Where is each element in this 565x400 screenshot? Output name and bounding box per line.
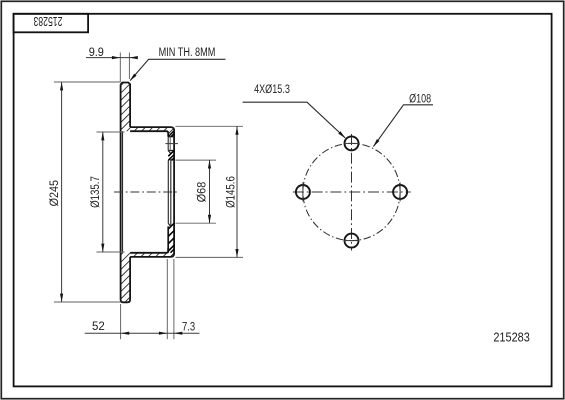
top flange outline xyxy=(130,127,174,257)
svg-text:9.9: 9.9 xyxy=(89,47,104,59)
lower wall inner edge xyxy=(167,226,169,252)
svg-text:Ø108: Ø108 xyxy=(409,93,431,105)
label o135.7 xyxy=(90,176,102,208)
bolt hole bottom xyxy=(345,234,359,248)
label o245 xyxy=(49,180,61,206)
svg-text:4XØ15.3: 4XØ15.3 xyxy=(254,84,290,96)
bolt hole top xyxy=(345,136,359,150)
dimension line 52 / 7.3 xyxy=(85,332,200,334)
extension lines dim o145.6 xyxy=(176,126,244,257)
extension lines dim o245 xyxy=(54,82,121,302)
label MIN TH. 8MM xyxy=(159,47,216,59)
leader o108 xyxy=(373,105,433,147)
dimension line o145.6 xyxy=(236,126,238,257)
leader 4Xo15.3 xyxy=(243,102,346,138)
dimension line o245 xyxy=(61,82,63,302)
bore chamfer diagonal (lower) xyxy=(168,223,171,226)
extension lines dim o135.7 xyxy=(97,132,125,252)
label o145.6 xyxy=(225,176,237,208)
bolt hole centermarks in section xyxy=(165,143,178,145)
label o68 xyxy=(197,182,209,203)
svg-text:215283: 215283 xyxy=(33,14,62,28)
bore silhouette verticals xyxy=(168,157,171,226)
label 52 xyxy=(92,321,105,333)
extension lines dims 52 / 7.3 xyxy=(121,259,174,339)
svg-text:215283: 215283 xyxy=(493,329,530,344)
bolt hole left xyxy=(296,185,310,199)
leader MIN TH. 8MM xyxy=(130,59,225,80)
dimension line 9.9 xyxy=(86,57,138,59)
wall thin verticals through bolt hole bands xyxy=(168,137,170,151)
label 9.9 xyxy=(89,47,104,59)
label 7.3 xyxy=(182,322,195,334)
extra hatch strokes upper wall blocks xyxy=(168,131,174,160)
label o108 xyxy=(409,93,431,105)
vertical centerline xyxy=(351,134,353,251)
hatch upper bore chamfer block xyxy=(168,151,174,161)
centerline of disc axis xyxy=(114,191,178,193)
hatch top flange and wall block xyxy=(130,127,174,137)
svg-text:52: 52 xyxy=(92,321,105,333)
extension lines dim 9.9 xyxy=(120,53,129,83)
svg-text:MIN TH. 8MM: MIN TH. 8MM xyxy=(159,47,216,59)
hatch disc lower block xyxy=(121,253,131,302)
title box top-left xyxy=(14,14,89,33)
svg-text:7.3: 7.3 xyxy=(182,322,195,334)
label 4Xo15.3 xyxy=(254,84,290,96)
svg-text:Ø145.6: Ø145.6 xyxy=(225,176,237,208)
bolt hole right xyxy=(393,185,407,199)
svg-text:Ø68: Ø68 xyxy=(197,182,209,203)
extra hatch strokes lower wall band xyxy=(168,223,174,252)
disc outline xyxy=(121,83,131,303)
extension lines dim o68 xyxy=(176,160,217,223)
bolt hole edges in section (upper) xyxy=(168,137,174,151)
horizontal centerline xyxy=(293,191,411,193)
hatch disc upper block xyxy=(121,83,131,131)
hatch lower wall and bottom flange block xyxy=(130,223,174,257)
dimension line o135.7 xyxy=(102,132,104,252)
svg-text:Ø245: Ø245 xyxy=(49,180,61,206)
svg-text:Ø135.7: Ø135.7 xyxy=(90,176,102,208)
bore chamfer diagonals (upper) xyxy=(168,151,171,161)
part number bottom right 215283 xyxy=(493,329,530,344)
bolt circle o108 dashed xyxy=(303,143,400,240)
title box part number 215283 (rotated 180) xyxy=(33,14,62,28)
dimension line o68 xyxy=(209,160,211,223)
disc inner face thin line xyxy=(122,131,124,253)
